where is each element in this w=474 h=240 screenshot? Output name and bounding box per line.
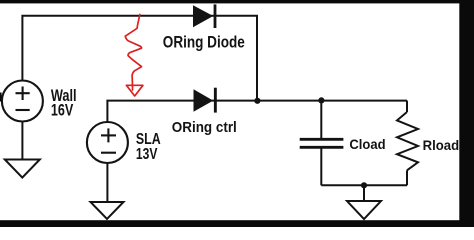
- diode ORing ctrl: [194, 88, 217, 113]
- diode ORing Diode: [193, 4, 216, 28]
- wire load ground stub: [363, 185, 365, 201]
- fault arrow red squiggle: [125, 15, 143, 97]
- ground SLA: [91, 202, 124, 219]
- node junction diode outputs: [254, 98, 260, 104]
- border bottom bar: [0, 220, 474, 227]
- svg-text:ORing Diode: ORing Diode: [163, 34, 245, 52]
- wire second row SLA to Rload corner: [107, 101, 407, 122]
- border right bar: [459, 0, 474, 227]
- ground load: [347, 201, 381, 219]
- border top bar: [0, 0, 474, 3]
- svg-text:16V: 16V: [51, 102, 73, 120]
- svg-text:Rload: Rload: [423, 137, 460, 153]
- voltage source SLA 13V: [87, 122, 128, 163]
- node junction Cload tap: [318, 97, 324, 103]
- wire SLA source to ground: [106, 163, 108, 202]
- svg-text:Cload: Cload: [349, 137, 385, 152]
- node junction ground tap: [361, 182, 367, 188]
- wire capacitor branch bottom: [320, 147, 322, 185]
- clipped mark left edge: [0, 93, 2, 102]
- wire top loop Wall to ORing Diode cathode and down to node: [22, 16, 257, 101]
- resistor Rload: [397, 112, 418, 170]
- wire Wall source to ground: [21, 121, 23, 159]
- svg-text:ORing ctrl: ORing ctrl: [172, 119, 237, 136]
- wire capacitor branch top: [320, 101, 322, 140]
- svg-text:13V: 13V: [136, 146, 158, 163]
- wire Rload branch verticals: [406, 101, 408, 186]
- voltage source Wall 16V: [2, 81, 43, 122]
- ground Wall: [5, 160, 40, 178]
- wire bottom row between Cload and Rload: [321, 184, 407, 186]
- capacitor Cload: [300, 139, 344, 147]
